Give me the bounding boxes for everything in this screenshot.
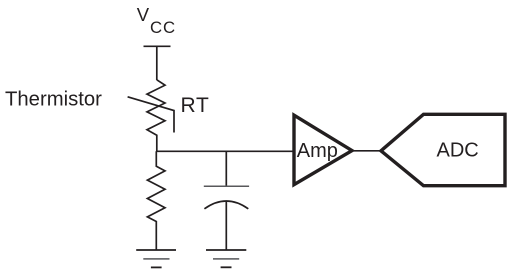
svg-text:CC: CC	[150, 18, 176, 37]
ground right	[206, 250, 246, 267]
ADC block	[381, 114, 505, 185]
capacitor	[204, 186, 249, 209]
label Thermistor	[5, 89, 102, 111]
wire node to amp	[156, 150, 293, 152]
power rail VCC T-bar	[144, 45, 171, 47]
thermistor RT	[128, 80, 174, 152]
wire node to capacitor	[225, 151, 227, 185]
ground left	[136, 250, 176, 267]
svg-text:Thermistor: Thermistor	[5, 89, 102, 111]
wire VCC to RT	[156, 46, 158, 80]
wire amp to ADC	[352, 150, 383, 152]
svg-text:RT: RT	[181, 94, 210, 117]
node VCC label	[137, 4, 176, 37]
resistor divider lower	[147, 151, 165, 250]
svg-text:V: V	[137, 4, 150, 25]
wire capacitor to ground	[225, 201, 227, 250]
svg-text:Amp: Amp	[297, 140, 338, 162]
op-amp Amp	[294, 115, 352, 184]
svg-text:ADC: ADC	[437, 140, 479, 162]
label RT	[181, 94, 210, 117]
